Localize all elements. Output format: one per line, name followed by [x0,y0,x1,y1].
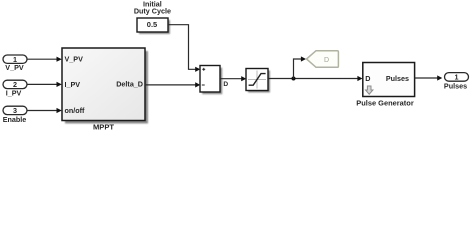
sum block [200,66,222,95]
svg-text:D: D [223,81,228,88]
branch wire to goto tag [294,56,307,78]
svg-text:Duty Cycle: Duty Cycle [134,6,171,15]
svg-text:1: 1 [455,73,459,82]
subsystem Pulse Generator [356,63,414,108]
saturation block [246,69,270,93]
wire MPPT Delta_D to sum minus input [145,82,200,87]
svg-text:Pulses: Pulses [444,81,467,90]
wire pulse generator to outport [415,75,443,80]
svg-text:D: D [324,57,329,64]
junction node [292,77,296,81]
svg-text:0.5: 0.5 [147,20,157,29]
svg-text:D: D [365,74,370,83]
svg-text:on/off: on/off [65,106,86,115]
svg-text:V_PV: V_PV [65,54,84,63]
wire constant to sum plus input [168,25,200,72]
svg-text:I_PV: I_PV [65,80,81,89]
inport 3 Enable [3,106,27,124]
wire inport2 to MPPT [27,82,62,87]
svg-text:3: 3 [13,106,17,115]
goto tag D [307,51,339,68]
inport 1 V_PV [3,55,27,72]
wire inport1 to MPPT [27,57,62,62]
subsystem MPPT [62,48,148,132]
label Initial Duty Cycle [134,0,171,15]
svg-text:MPPT: MPPT [93,123,114,132]
svg-text:V_PV: V_PV [5,63,24,72]
outport 1 Pulses [444,73,469,91]
svg-text:I_PV: I_PV [6,88,22,97]
constant 0.5 [137,18,170,34]
svg-text:Pulses: Pulses [386,74,409,83]
label D (sum output) [223,81,228,88]
svg-text:Delta_D: Delta_D [116,80,143,89]
wire saturation to pulse generator [268,76,363,81]
svg-text:Pulse Generator: Pulse Generator [356,99,414,108]
inport 2 I_PV [3,80,27,97]
wire sum to saturation [220,76,246,81]
svg-text:Enable: Enable [3,115,27,124]
wire inport3 to MPPT [27,108,62,113]
